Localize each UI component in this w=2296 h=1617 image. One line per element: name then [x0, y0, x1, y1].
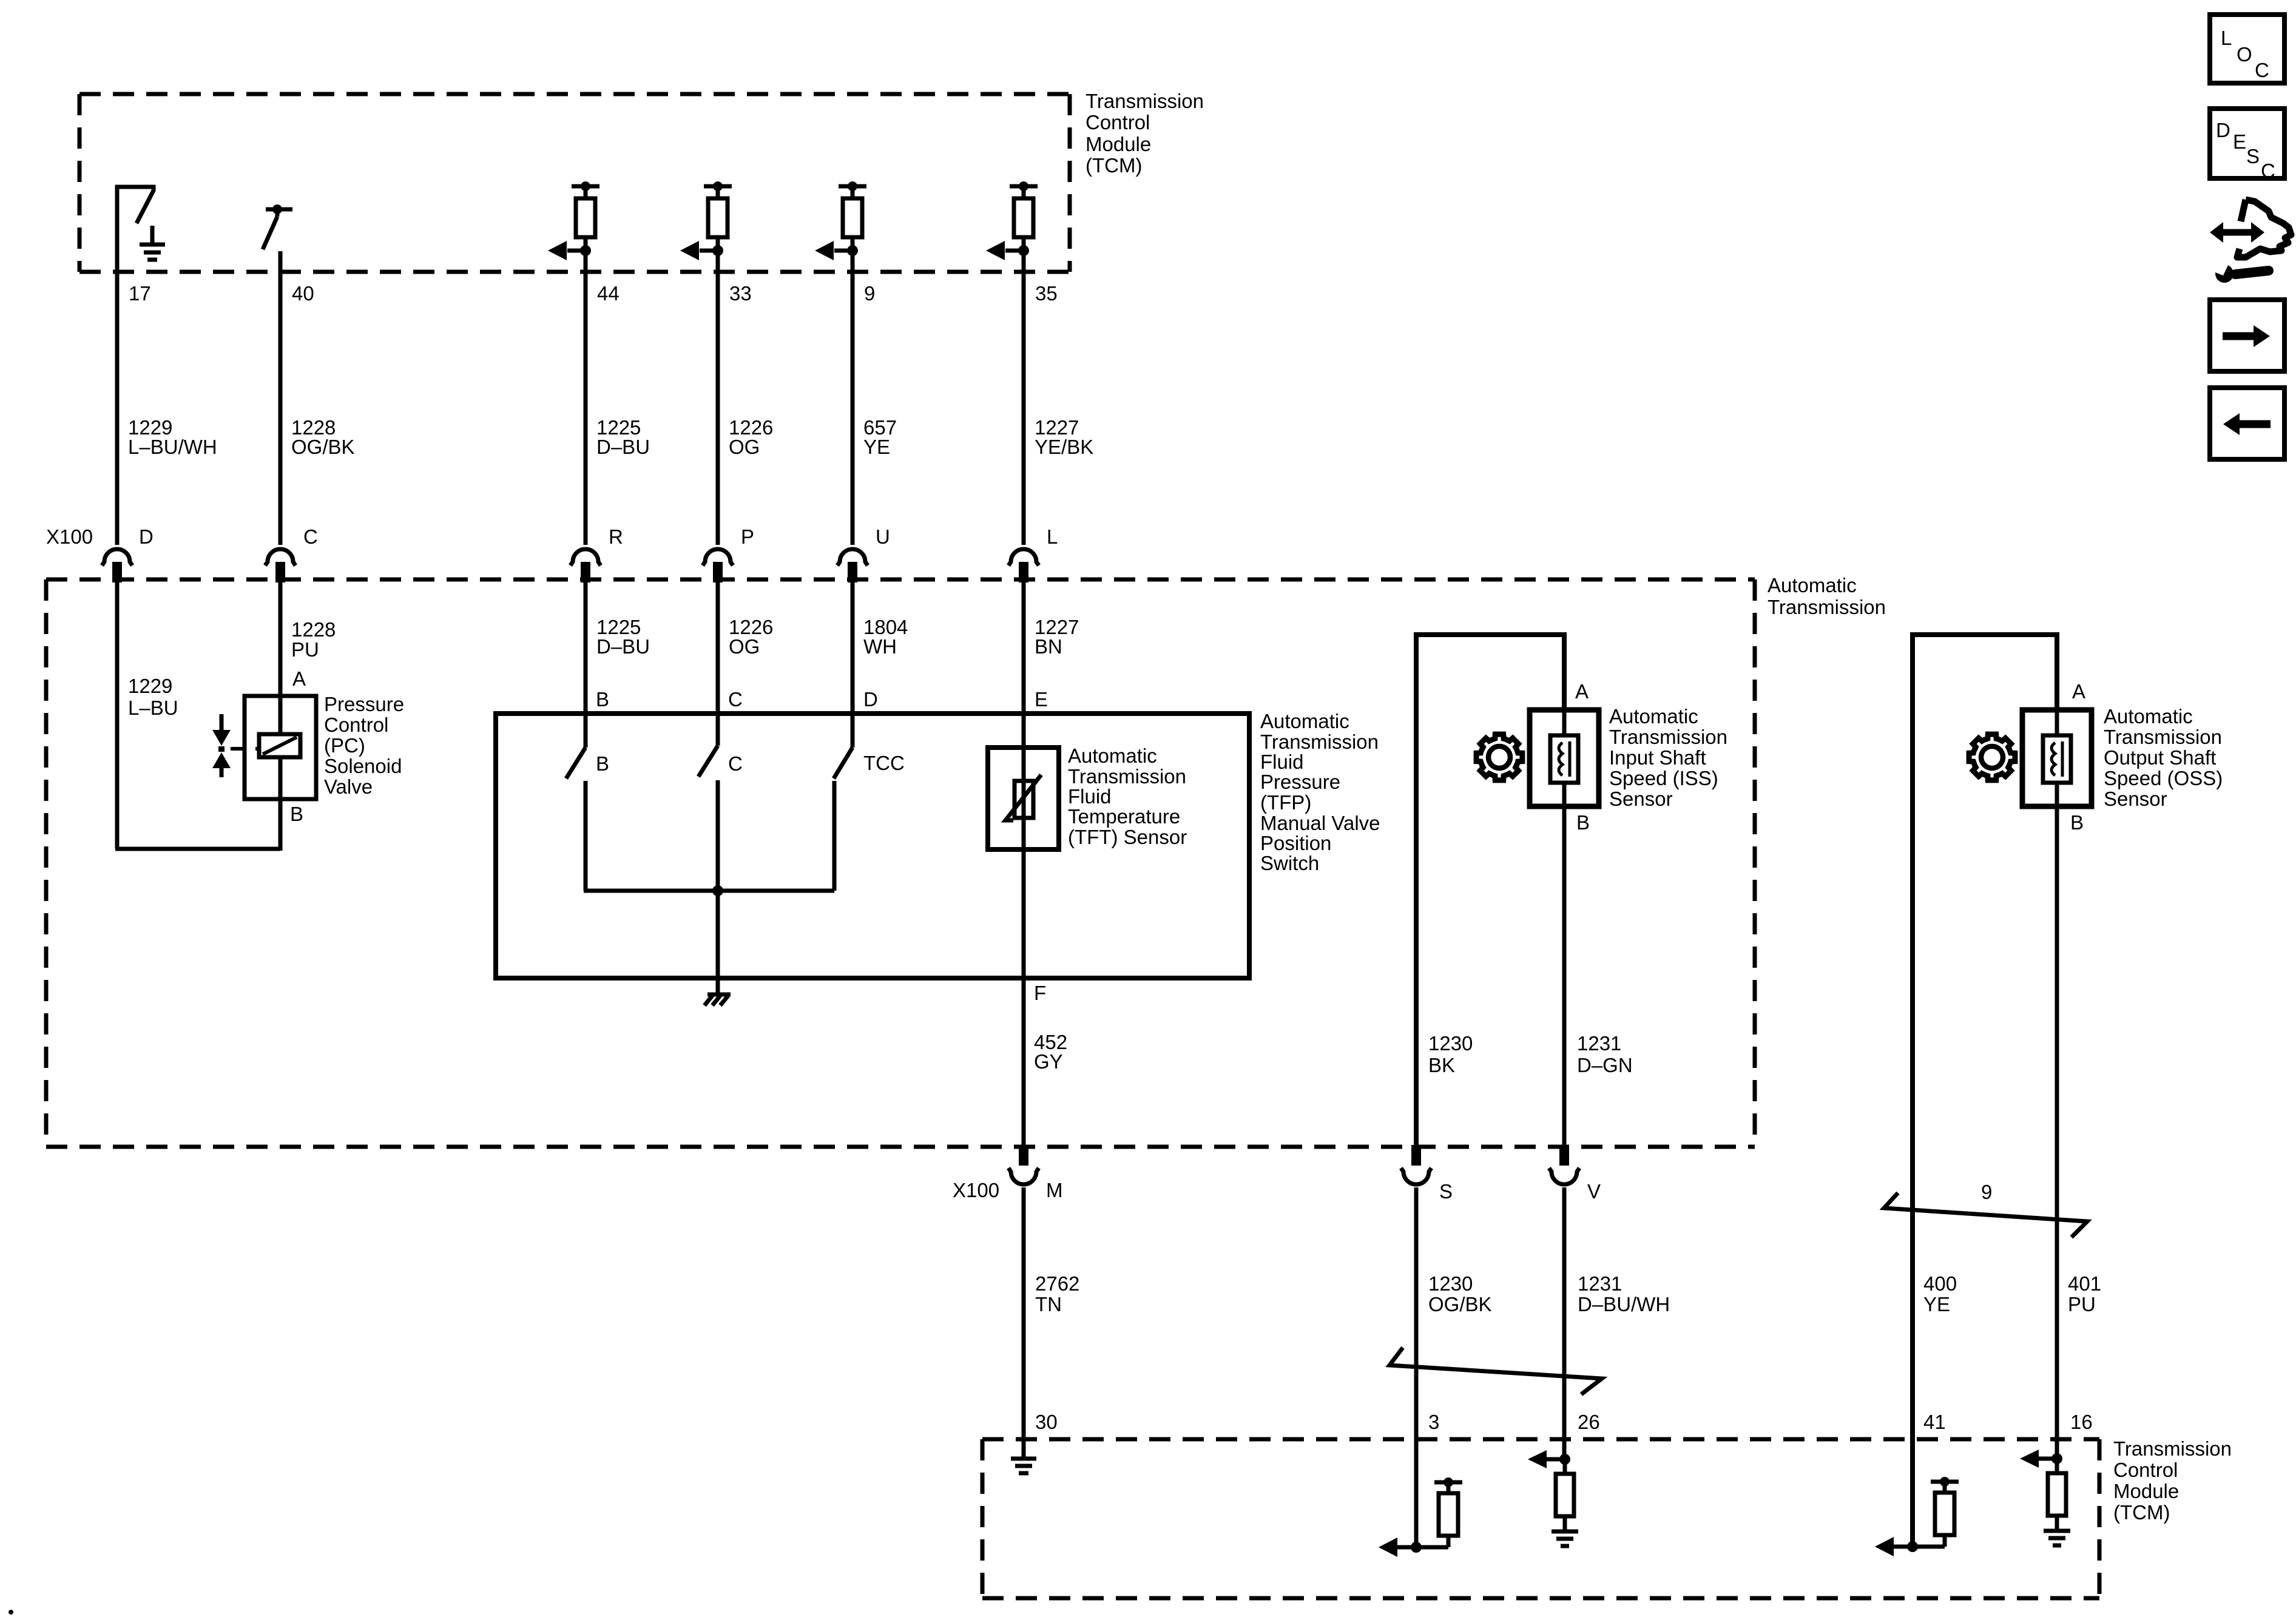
svg-text:35: 35: [1035, 282, 1058, 305]
svg-text:26: 26: [1578, 1411, 1600, 1433]
svg-text:B: B: [2070, 811, 2084, 834]
svg-text:9: 9: [1981, 1181, 1992, 1203]
Automatic Transmission dashed box: [46, 578, 1755, 582]
resistor with arrow to ground at pin 16: [2051, 1453, 2062, 1464]
svg-text:Transmission: Transmission: [1609, 726, 1727, 748]
svg-text:S: S: [1439, 1180, 1453, 1203]
connector X100 pin S: [1411, 1145, 1421, 1166]
svg-text:Speed (ISS): Speed (ISS): [1609, 767, 1718, 789]
svg-text:TCC: TCC: [863, 752, 905, 774]
svg-text:Pressure: Pressure: [324, 693, 404, 715]
svg-text:YE: YE: [863, 436, 890, 458]
svg-text:44: 44: [597, 282, 620, 305]
TFP manual valve position switch box: [496, 714, 1249, 978]
automatic transmission fluid temperature (TFT) sensor: [988, 748, 1059, 849]
svg-text:C: C: [2255, 59, 2269, 81]
svg-text:YE: YE: [1923, 1293, 1950, 1315]
svg-text:PU: PU: [2068, 1293, 2096, 1315]
connector X100 pin M: [1019, 1145, 1028, 1166]
svg-text:Automatic: Automatic: [2104, 705, 2193, 727]
svg-text:OG/BK: OG/BK: [291, 436, 355, 458]
wire 1230 OG/BK to pin 3: [1414, 1187, 1419, 1547]
wire 1227 BN (X100-L down through TFT): [1022, 582, 1026, 978]
svg-text:1228: 1228: [291, 618, 336, 641]
svg-text:TN: TN: [1035, 1293, 1062, 1315]
svg-text:D: D: [2216, 119, 2230, 141]
switch TCC blade: [834, 748, 853, 778]
resistor with arrow at pin 3: [1411, 1542, 1422, 1553]
connector X100 pin V: [1559, 1145, 1569, 1166]
switch B blade: [566, 748, 586, 778]
LOC icon box: [2210, 15, 2284, 83]
ground at pin 30: [1011, 1457, 1036, 1461]
svg-text:1230: 1230: [1428, 1032, 1473, 1055]
svg-text:33: 33: [729, 282, 752, 305]
Transmission Control Module (TCM) top dashed box: [79, 92, 1070, 96]
svg-text:(TFT) Sensor: (TFT) Sensor: [1068, 826, 1187, 848]
svg-text:3: 3: [1428, 1411, 1439, 1433]
svg-text:M: M: [1046, 1179, 1063, 1201]
svg-text:17: 17: [129, 282, 151, 305]
svg-text:A: A: [292, 667, 306, 690]
svg-text:D–BU/WH: D–BU/WH: [1578, 1293, 1670, 1315]
svg-text:16: 16: [2070, 1411, 2093, 1433]
svg-text:C: C: [303, 525, 318, 548]
resistor with arrow at pin 41: [1907, 1541, 1918, 1552]
svg-text:S: S: [2246, 145, 2260, 167]
wire 1225 (pin 44 to X100-R): [584, 251, 588, 545]
svg-text:Sensor: Sensor: [1609, 788, 1673, 810]
svg-text:OG: OG: [729, 635, 760, 658]
svg-text:40: 40: [292, 282, 314, 305]
svg-text:Automatic: Automatic: [1609, 705, 1698, 727]
svg-text:Temperature: Temperature: [1068, 805, 1180, 828]
svg-text:D–BU: D–BU: [596, 436, 650, 458]
svg-text:OG: OG: [729, 436, 760, 458]
svg-text:X100: X100: [953, 1179, 999, 1201]
DESC icon box: [2210, 109, 2284, 178]
svg-text:C: C: [728, 752, 743, 775]
wire 1804 into TFP: [851, 582, 855, 748]
wire 1227 (pin 35 to X100-L): [1022, 251, 1026, 545]
switch S1 to ground (pin 17): [117, 187, 154, 272]
svg-text:(PC): (PC): [324, 734, 365, 757]
svg-text:D–GN: D–GN: [1577, 1054, 1633, 1076]
wire 1229 (pin 17 to X100-D): [115, 272, 120, 545]
wire 1226 (pin 33 to X100-P): [716, 251, 720, 545]
resistor with arrow to ground at pin 26: [1559, 1454, 1570, 1465]
resistor R33 with arrow: [704, 184, 732, 189]
pressure control (PC) solenoid valve: [245, 696, 316, 799]
svg-text:1230: 1230: [1428, 1272, 1473, 1295]
svg-text:Output Shaft: Output Shaft: [2104, 746, 2216, 769]
svg-text:Sensor: Sensor: [2104, 788, 2167, 810]
svg-text:L: L: [2221, 27, 2232, 49]
svg-text:Solenoid: Solenoid: [324, 755, 402, 777]
wire 1225 into TFP: [584, 582, 588, 748]
connector X100 pin L: [1008, 549, 1039, 565]
page dot: [8, 1610, 13, 1615]
switch S2 (pin 40): [266, 208, 292, 212]
chassis ground below TFP: [716, 978, 720, 993]
svg-text:C: C: [728, 688, 743, 711]
svg-text:Speed (OSS): Speed (OSS): [2104, 767, 2223, 789]
svg-text:1231: 1231: [1578, 1272, 1622, 1295]
svg-text:A: A: [2072, 680, 2085, 703]
svg-text:Valve: Valve: [324, 775, 373, 798]
ISS loop wire (1230): [1416, 635, 1564, 1147]
switch common wire: [584, 889, 834, 893]
Transmission Control Module (TCM) bottom dashed box: [982, 1437, 2099, 1442]
svg-text:Transmission: Transmission: [2104, 726, 2222, 748]
svg-text:P: P: [741, 525, 754, 548]
back arrow icon box: [2210, 388, 2284, 459]
svg-text:2762: 2762: [1035, 1272, 1079, 1295]
adjust/tool icon: [2221, 229, 2254, 236]
svg-text:Manual Valve: Manual Valve: [1260, 812, 1380, 834]
resistor R9 with arrow: [839, 184, 866, 189]
switch C blade: [698, 746, 718, 777]
svg-text:L–BU/WH: L–BU/WH: [128, 436, 217, 458]
connector X100 pin P: [703, 549, 733, 565]
wire 1228 PU (X100-C to solenoid A): [279, 582, 283, 696]
svg-text:F: F: [1034, 982, 1046, 1004]
wire 401 (OSS B down to pin 16): [2055, 806, 2059, 1459]
connector X100 pin D: [102, 549, 132, 565]
svg-text:(TCM): (TCM): [1086, 154, 1142, 177]
svg-text:Control: Control: [2113, 1459, 2178, 1481]
wire pin 40: [279, 251, 283, 545]
svg-text:(TCM): (TCM): [2113, 1501, 2170, 1524]
resistor R35 with arrow: [1010, 184, 1038, 189]
svg-text:WH: WH: [863, 635, 897, 658]
svg-text:D–BU: D–BU: [596, 635, 650, 658]
svg-text:C: C: [2261, 160, 2275, 182]
svg-text:L: L: [1047, 525, 1058, 548]
twisted pair crossing 9: [1884, 1193, 2087, 1237]
svg-text:1231: 1231: [1577, 1032, 1621, 1055]
svg-text:B: B: [596, 688, 609, 711]
svg-text:D: D: [863, 688, 878, 711]
svg-text:Module: Module: [1086, 133, 1151, 155]
svg-text:B: B: [1576, 811, 1590, 834]
wire 1231 (ISS B down): [1562, 806, 1567, 1147]
svg-text:1229: 1229: [128, 675, 172, 697]
svg-text:Fluid: Fluid: [1068, 785, 1112, 808]
svg-text:Control: Control: [1086, 111, 1150, 133]
svg-text:Transmission: Transmission: [1768, 596, 1886, 618]
svg-text:E: E: [2233, 130, 2246, 153]
wire 657 (pin 9 to X100-U): [851, 251, 855, 545]
svg-text:9: 9: [864, 282, 875, 305]
OSS loop wire (400): [1913, 635, 2057, 1547]
svg-text:BK: BK: [1428, 1054, 1455, 1076]
connector X100 pin R: [570, 549, 601, 565]
svg-text:BN: BN: [1035, 635, 1062, 658]
svg-text:Transmission: Transmission: [1068, 765, 1186, 788]
svg-text:L–BU: L–BU: [128, 697, 178, 719]
svg-text:Switch: Switch: [1260, 852, 1319, 874]
svg-text:PU: PU: [291, 638, 319, 661]
svg-text:Position: Position: [1260, 832, 1331, 854]
svg-text:Automatic: Automatic: [1768, 574, 1857, 596]
twisted pair crossing S/V: [1389, 1348, 1602, 1394]
wrench: [2235, 271, 2269, 274]
connector X100 pin U: [837, 549, 868, 565]
valve arrows: [220, 714, 224, 731]
svg-text:E: E: [1035, 688, 1048, 711]
svg-text:R: R: [609, 525, 623, 548]
svg-text:OG/BK: OG/BK: [1428, 1293, 1492, 1315]
svg-text:Automatic: Automatic: [1260, 710, 1349, 732]
svg-text:Transmission: Transmission: [1260, 731, 1379, 753]
svg-text:V: V: [1587, 1180, 1601, 1203]
wire 2762 TN: [1022, 1187, 1026, 1457]
svg-text:B: B: [290, 803, 303, 825]
automatic transmission input shaft speed (ISS) sensor: [1530, 710, 1599, 806]
wire 1226 into TFP: [716, 582, 720, 746]
connector X100 pin C: [265, 549, 295, 565]
svg-text:U: U: [876, 525, 890, 548]
wire 452 GY (F to X100-M): [1022, 978, 1026, 1147]
svg-text:Input Shaft: Input Shaft: [1609, 746, 1706, 769]
svg-text:Fluid: Fluid: [1260, 751, 1304, 773]
svg-text:YE/BK: YE/BK: [1035, 436, 1093, 458]
svg-text:D: D: [139, 525, 154, 548]
svg-text:O: O: [2237, 43, 2252, 66]
svg-text:Module: Module: [2113, 1480, 2179, 1502]
wire 1229 L-BU (X100-D down to solenoid B): [115, 582, 120, 849]
svg-text:X100: X100: [46, 525, 93, 548]
svg-text:(TFP): (TFP): [1260, 791, 1311, 814]
svg-text:400: 400: [1923, 1272, 1957, 1295]
svg-text:401: 401: [2068, 1272, 2101, 1295]
svg-text:Pressure: Pressure: [1260, 771, 1340, 793]
svg-text:Control: Control: [324, 714, 388, 736]
svg-text:B: B: [596, 752, 609, 775]
svg-text:Transmission: Transmission: [1086, 90, 1204, 112]
wire 1231 D-BU/WH to pin 26: [1562, 1187, 1567, 1459]
svg-text:A: A: [1575, 680, 1589, 703]
svg-text:41: 41: [1923, 1411, 1946, 1433]
svg-text:Automatic: Automatic: [1068, 744, 1157, 767]
solenoid B wire: [279, 799, 283, 851]
forward arrow icon box: [2210, 300, 2284, 371]
resistor R44 with arrow: [572, 184, 599, 189]
automatic transmission output shaft speed (OSS) sensor: [2022, 710, 2092, 806]
svg-text:30: 30: [1035, 1411, 1058, 1433]
svg-text:GY: GY: [1034, 1050, 1063, 1073]
svg-text:Transmission: Transmission: [2113, 1437, 2232, 1460]
